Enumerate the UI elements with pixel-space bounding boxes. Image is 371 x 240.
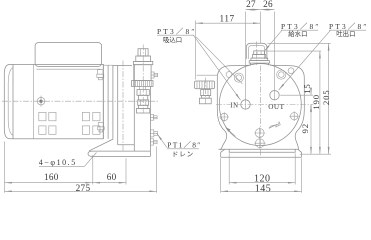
ext OUT center right	[280, 94, 313, 96]
vent squares row 2	[39, 126, 100, 134]
ext line 160/60	[92, 155, 94, 185]
lower block nut	[138, 100, 149, 105]
dim line 145	[221, 190, 302, 192]
pedestal bottom	[118, 144, 135, 146]
casing plate outline left	[217, 65, 250, 150]
lower bolt hole right	[289, 111, 299, 121]
base gusset	[89, 139, 113, 151]
svg-text:145: 145	[255, 184, 272, 194]
upper bolt hole double left	[234, 73, 243, 82]
motor fan cover end cap	[4, 64, 13, 138]
label PT3/8 discharge	[279, 22, 369, 90]
bottom hole 1	[254, 127, 265, 138]
suction port bolt right	[151, 72, 158, 78]
front view horizontal centerline	[216, 104, 314, 106]
svg-text:PT3／8″: PT3／8″	[157, 27, 197, 36]
hex plug nut	[254, 51, 265, 55]
vent squares row 1	[39, 112, 100, 120]
lower stem	[139, 95, 148, 100]
dim 15 lower tail	[310, 105, 312, 113]
tower base flange	[133, 61, 152, 64]
lower bolt hole left	[219, 112, 229, 122]
ext 27 left (IN)	[245, 12, 247, 110]
top fitting bail outer	[246, 43, 267, 59]
top fitting bail inner	[249, 45, 265, 59]
right bolt 1	[150, 114, 157, 120]
svg-text:PT3／8″: PT3／8″	[281, 22, 321, 31]
dim line 120	[229, 182, 295, 184]
flow arrow lower left	[225, 127, 235, 136]
ext 145 left	[220, 158, 222, 193]
base front view top surface	[219, 148, 299, 150]
svg-text:275: 275	[76, 183, 91, 193]
left fitting hex nut	[201, 90, 211, 96]
left knob fitting ribbed bar	[195, 81, 215, 89]
terminal box lid line	[37, 68, 101, 70]
lower stem 2	[139, 105, 148, 108]
drain bolt	[150, 130, 157, 137]
pump head block	[113, 65, 134, 151]
terminal box	[35, 43, 101, 67]
svg-text:15: 15	[302, 83, 312, 93]
left fitting top line	[197, 74, 218, 76]
ext 205 top	[268, 42, 331, 44]
lower left nipple fitting	[98, 122, 105, 132]
ext 145 right	[301, 158, 303, 193]
svg-text:190: 190	[311, 94, 321, 110]
tower neck	[136, 56, 151, 61]
left fitting lower block	[199, 98, 211, 104]
base bottom	[221, 156, 302, 158]
ext 120 left	[228, 153, 230, 184]
ext line 60 right	[125, 158, 127, 184]
svg-text:IN: IN	[230, 102, 238, 109]
eyebolt circle	[35, 96, 46, 107]
svg-text:給水口: 給水口	[288, 29, 307, 38]
fitting centerline	[256, 42, 258, 66]
svg-text:吸込口: 吸込口	[163, 35, 182, 44]
label 4-phi10.5	[39, 153, 97, 168]
motor body	[13, 64, 103, 138]
base right chamfer and edge	[298, 149, 302, 157]
manifold right edge	[149, 86, 151, 151]
ext 120 right	[294, 153, 296, 184]
right bolt 3	[150, 139, 157, 145]
casing plate outline right	[270, 65, 304, 149]
label PT1/8 drain	[157, 134, 202, 159]
suction valve tower cap nut	[138, 49, 148, 56]
rotation arrow	[269, 122, 280, 128]
svg-text:吐出口: 吐出口	[336, 29, 355, 38]
dim line 92	[310, 105, 312, 155]
ext 27/26 center	[259, 12, 261, 44]
dim line 27	[246, 9, 261, 11]
base plate left view	[88, 151, 150, 156]
left fitting stem	[202, 96, 210, 99]
IN port circle	[241, 100, 250, 109]
dim line 190	[319, 51, 321, 154]
base recessed channel	[229, 149, 295, 152]
svg-text:92: 92	[300, 123, 310, 133]
label PT3/8 feed	[264, 22, 321, 52]
svg-text:ドレン: ドレン	[172, 152, 194, 159]
svg-text:160: 160	[44, 172, 59, 182]
upper bolt hole small left	[226, 72, 232, 78]
plug flange	[251, 58, 268, 61]
motor housing seam	[33, 64, 35, 138]
dim line 26	[260, 9, 274, 11]
bottom hole 2	[254, 138, 265, 149]
ext base bottom right	[300, 153, 331, 155]
base left chamfer and edge	[221, 149, 225, 157]
motor end cap seam arc	[8, 68, 13, 136]
svg-text:PT3／8″: PT3／8″	[329, 22, 369, 31]
dim line 275	[5, 190, 157, 192]
upper left nipple fitting	[97, 70, 104, 80]
dim 15 upper tail	[310, 87, 312, 95]
ext line 275 right	[156, 147, 158, 193]
svg-text:27: 27	[246, 0, 256, 9]
head centerline	[122, 61, 124, 151]
motor centerline	[2, 100, 158, 102]
left fitting centerline	[204, 78, 206, 104]
svg-text:26: 26	[263, 0, 273, 9]
ext 190 top	[266, 50, 322, 52]
upper bolt hole small right	[288, 68, 294, 74]
tower waist	[140, 86, 146, 89]
svg-text:PT1／8″: PT1／8″	[167, 141, 201, 150]
plug base flange	[249, 61, 269, 66]
bracket ring lines	[102, 64, 104, 138]
svg-text:205: 205	[321, 89, 331, 105]
pump casing circle	[219, 64, 301, 146]
front view vertical centerline	[259, 66, 261, 159]
ext line motor left	[4, 142, 6, 193]
dim line 117	[196, 22, 261, 24]
ribbed lock ring	[132, 81, 154, 87]
tower centerline	[142, 45, 144, 115]
svg-text:60: 60	[107, 172, 117, 182]
dim line 60	[93, 182, 126, 184]
plug mid band	[253, 55, 266, 59]
ext 26 right (OUT)	[274, 12, 276, 101]
upper bolt hole double right	[277, 70, 286, 79]
svg-text:4−φ10.5: 4−φ10.5	[39, 158, 77, 167]
dim line 205	[328, 43, 330, 154]
bottom cap	[137, 108, 150, 113]
label PT3/8 suction	[157, 27, 242, 100]
OUT port circle	[270, 91, 279, 100]
lower hex nut	[137, 90, 149, 96]
dim line 160	[5, 182, 93, 184]
ext 117 left	[195, 21, 197, 80]
svg-text:117: 117	[220, 14, 235, 24]
valve main body	[134, 65, 151, 81]
